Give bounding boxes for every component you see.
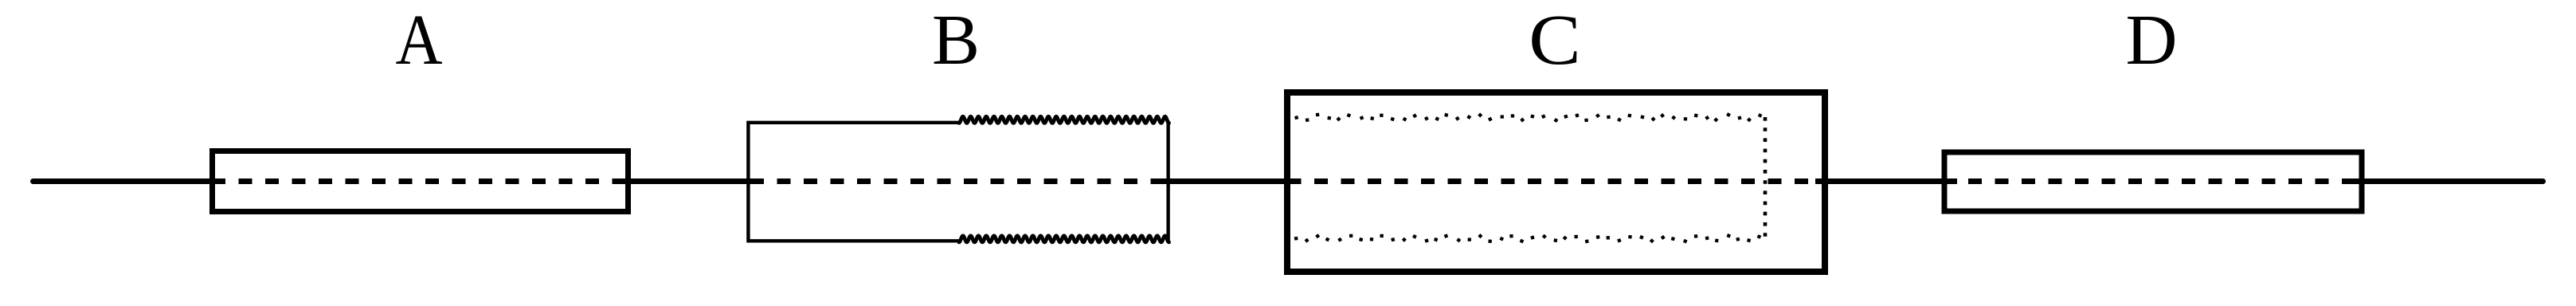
svg-text:A: A bbox=[396, 1, 443, 80]
wire left lead bbox=[33, 178, 225, 184]
svg-text:C: C bbox=[1529, 1, 1581, 80]
svg-text:D: D bbox=[2126, 1, 2178, 80]
wire right lead bbox=[2353, 178, 2543, 184]
wire C to D bbox=[1815, 178, 1957, 184]
dashed axis in D bbox=[1942, 178, 2359, 184]
tube C body bbox=[1287, 92, 1825, 272]
tube C liner right wall (dotted) bbox=[1764, 117, 1768, 241]
tube B thread bottom bbox=[959, 236, 1169, 242]
tube B body (left half walls) bbox=[748, 123, 959, 241]
dashed axis in B bbox=[750, 178, 1167, 184]
svg-text:B: B bbox=[932, 1, 980, 80]
tube A body bbox=[213, 151, 628, 212]
wire A to B bbox=[618, 178, 761, 184]
wire B to C bbox=[1160, 178, 1301, 184]
tube C liner dots bbox=[1294, 112, 1763, 243]
tube D body bbox=[1944, 152, 2362, 211]
tube B thread top bbox=[959, 116, 1169, 123]
dashed axis in C bbox=[1288, 178, 1822, 184]
tube B right wall bbox=[1166, 121, 1169, 242]
dashed axis in A bbox=[212, 178, 626, 184]
